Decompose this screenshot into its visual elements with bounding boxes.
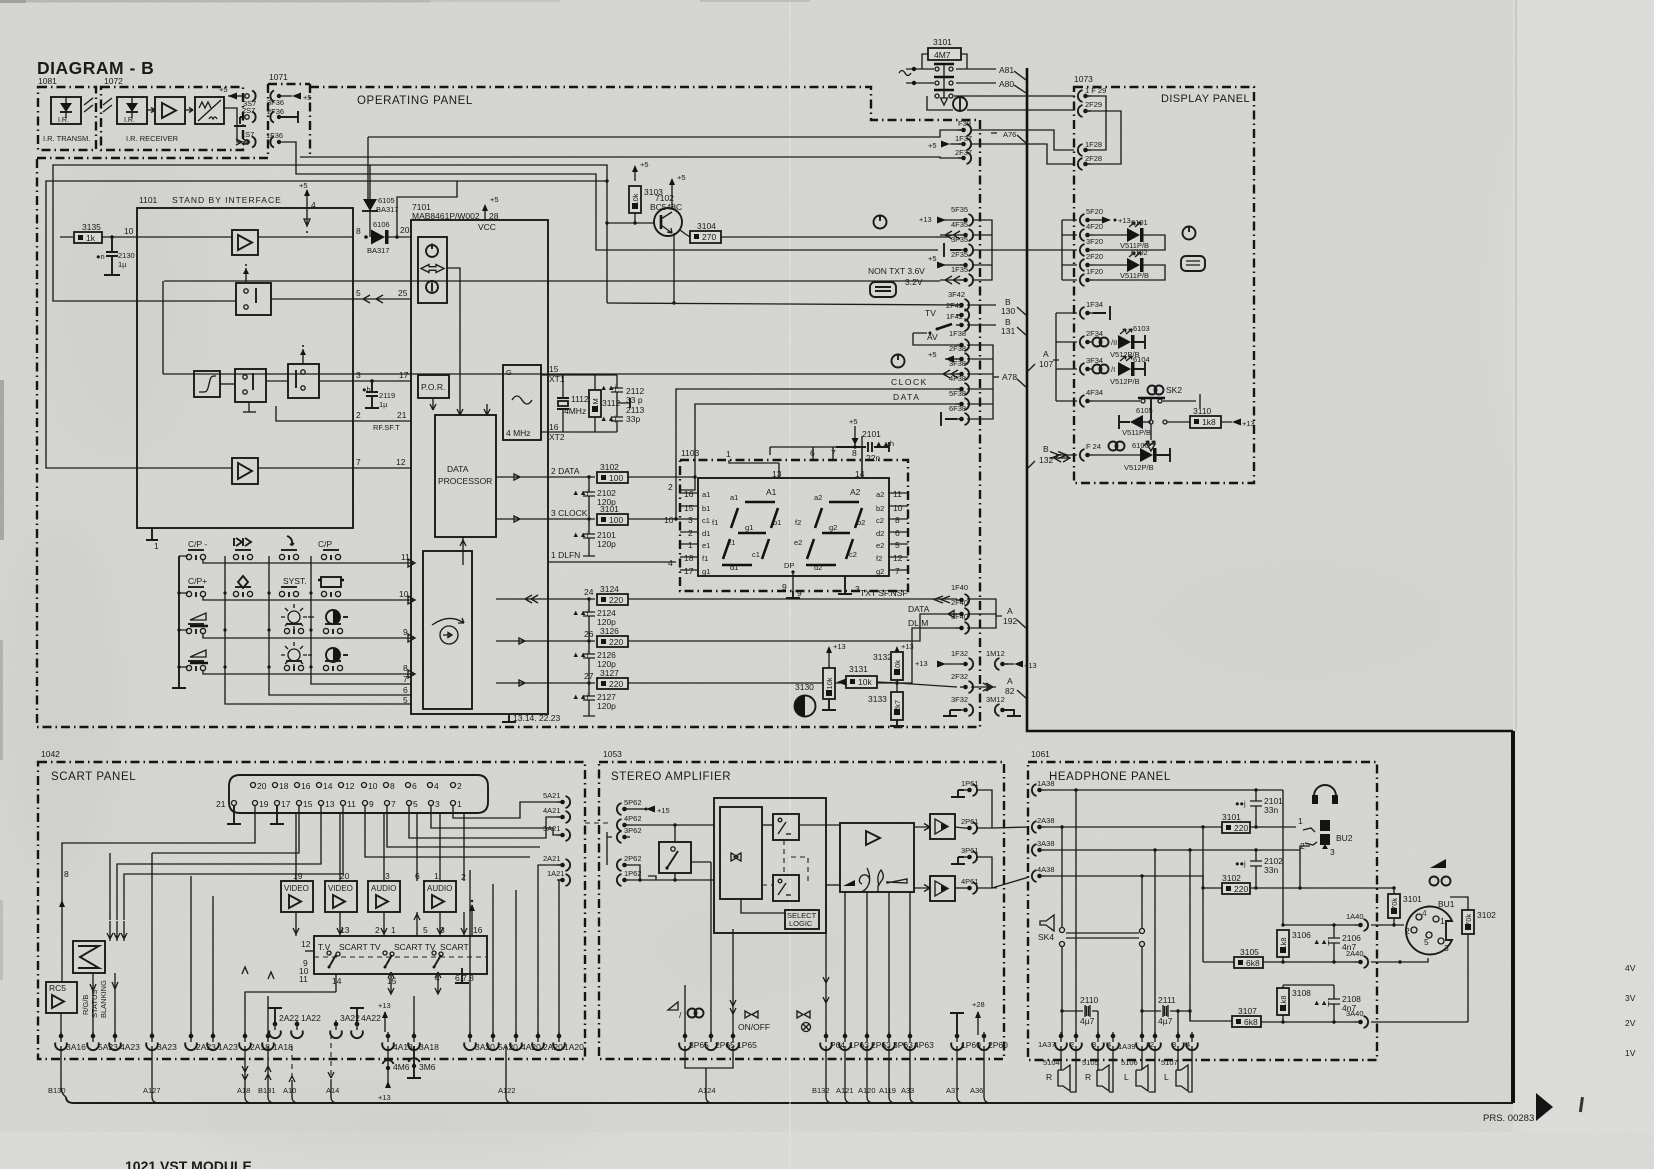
- BU1 resistor 3101 470k: [1388, 894, 1400, 918]
- F40 bracket to A192: [967, 599, 1002, 628]
- svg-text:DATA: DATA: [908, 604, 930, 614]
- svg-text:1101: 1101: [139, 195, 158, 205]
- fuse interlock bars: [934, 64, 954, 90]
- RC5 box: [46, 982, 77, 1013]
- svg-text:4µ7: 4µ7: [1080, 1016, 1095, 1026]
- svg-text:107: 107: [1039, 359, 1053, 369]
- svg-text:4F34: 4F34: [1086, 388, 1103, 397]
- svg-text:3102: 3102: [1477, 910, 1496, 920]
- svg-text:VIDEO: VIDEO: [328, 884, 353, 893]
- sub switch bottom: [773, 875, 799, 901]
- scart panel 1042 outline: [38, 762, 585, 1059]
- svg-text:9: 9: [369, 799, 374, 809]
- svg-text:5104: 5104: [1043, 1058, 1060, 1067]
- svg-text:+5: +5: [640, 160, 649, 169]
- key cassette: [321, 577, 341, 587]
- svg-text:DP: DP: [784, 561, 794, 570]
- svg-text:AV: AV: [927, 332, 938, 342]
- svg-text:▲▲j: ▲▲j: [572, 608, 589, 617]
- svg-text:▲▲j: ▲▲j: [600, 383, 617, 392]
- svg-text:1P62: 1P62: [624, 869, 642, 878]
- row2 wire to pin10: [203, 596, 415, 604]
- svg-text:5F35: 5F35: [951, 205, 968, 214]
- svg-text:L: L: [1164, 1072, 1169, 1082]
- svg-text:10: 10: [368, 781, 378, 791]
- svg-text:f1: f1: [712, 518, 718, 527]
- svg-text:1: 1: [391, 925, 396, 935]
- svg-text:A: A: [1007, 676, 1013, 686]
- balance icon: [887, 879, 907, 883]
- resistor 3112 1M vertical: [594, 375, 596, 432]
- seg b2: [855, 508, 862, 528]
- svg-text:4P62: 4P62: [624, 814, 642, 823]
- svg-text:6: 6: [810, 448, 815, 458]
- svg-text:4: 4: [1422, 908, 1427, 918]
- drops from pins to lower area: [365, 806, 530, 857]
- svg-text:G: G: [506, 368, 512, 377]
- connector 2P60: [978, 1032, 990, 1050]
- svg-text:3130: 3130: [795, 682, 814, 692]
- svg-text:4A21: 4A21: [543, 806, 561, 815]
- switch block mid: [236, 283, 271, 315]
- svg-text:F 24: F 24: [1086, 442, 1101, 451]
- IR amp box: [155, 97, 185, 124]
- svg-text:5: 5: [403, 695, 408, 705]
- svg-text:3F34: 3F34: [1086, 356, 1103, 365]
- input selector outer box: [714, 798, 826, 933]
- svg-text:1061: 1061: [1031, 749, 1050, 759]
- switch contacts: [327, 951, 331, 955]
- resistor 3106 1k8 vertical: [1277, 930, 1289, 957]
- svg-text:3A40: 3A40: [1346, 1009, 1364, 1018]
- svg-text:4: 4: [311, 200, 316, 210]
- svg-text:+5: +5: [303, 93, 312, 102]
- svg-text:a2: a2: [814, 493, 822, 502]
- mute switch box: [659, 842, 691, 873]
- svg-text:3A16: 3A16: [66, 1042, 86, 1052]
- row 1022 3A40: [1261, 1021, 1356, 1023]
- svg-text:B131: B131: [258, 1086, 276, 1095]
- svg-text:16: 16: [473, 925, 483, 935]
- svg-text:22n: 22n: [866, 453, 880, 463]
- amp VIDEO 2: [325, 881, 357, 912]
- svg-text:9: 9: [403, 627, 408, 637]
- row 888: [1203, 887, 1394, 889]
- svg-text:15: 15: [684, 503, 694, 513]
- svg-text:/I: /I: [1111, 365, 1115, 374]
- cassette icons: [731, 853, 741, 861]
- svg-text:220: 220: [609, 637, 623, 647]
- svg-text:+5: +5: [490, 195, 499, 204]
- svg-text:13: 13: [340, 925, 350, 935]
- svg-text:V511P/B: V511P/B: [1120, 271, 1149, 280]
- svg-text:3 CLOCK: 3 CLOCK: [551, 508, 588, 518]
- svg-text:82: 82: [1005, 686, 1015, 696]
- svg-text:TXT SF.NSF: TXT SF.NSF: [860, 588, 908, 598]
- P63 drops from volume block: [845, 892, 910, 1035]
- svg-text:8: 8: [390, 781, 395, 791]
- svg-text:2130: 2130: [118, 251, 135, 260]
- svg-text:A14: A14: [326, 1086, 339, 1095]
- seg f1: [731, 508, 738, 528]
- svg-text:1 DLFN: 1 DLFN: [551, 550, 580, 560]
- svg-text:2F20: 2F20: [1086, 252, 1103, 261]
- seg e2: [807, 539, 814, 559]
- wire 2F37 row: [300, 157, 961, 158]
- svg-text:BC548C: BC548C: [650, 202, 682, 212]
- svg-text:STATUS: STATUS: [90, 990, 99, 1018]
- IC ground 13.14.22.23: [502, 714, 516, 722]
- svg-text:1M12: 1M12: [986, 649, 1005, 658]
- keyboard ground column: [172, 556, 186, 688]
- svg-text:A81: A81: [999, 65, 1014, 75]
- arrow to amp: [147, 108, 155, 113]
- row 962 2A40: [1203, 961, 1356, 963]
- svg-text:1A39: 1A39: [1118, 1042, 1136, 1051]
- F35 group: +13 arrow: [944, 219, 961, 221]
- icons near P64: [797, 1011, 810, 1018]
- scart pins bottom row: [232, 801, 456, 806]
- keyboard interface block: [423, 551, 472, 709]
- vol ramp icon: [843, 880, 855, 886]
- F35 bracket: [972, 220, 992, 280]
- down arrow hollow: [1150, 424, 1152, 440]
- svg-text:●●j: ●●j: [1235, 799, 1246, 808]
- switch block A: [235, 369, 266, 402]
- connector 2P63: [861, 1032, 873, 1050]
- svg-text:3132: 3132: [873, 652, 892, 662]
- bottom bus wire: [66, 1097, 1513, 1103]
- svg-text:C/P -: C/P -: [188, 539, 207, 549]
- svg-text:V511P/B: V511P/B: [1122, 428, 1151, 437]
- svg-text:8: 8: [356, 226, 361, 236]
- IR transmit rays: [84, 98, 93, 112]
- svg-text:1F40: 1F40: [951, 583, 968, 592]
- wires shaper to connectors: [224, 108, 244, 142]
- svg-text:1: 1: [688, 540, 693, 550]
- svg-text:1071: 1071: [269, 72, 288, 82]
- svg-text:100: 100: [609, 515, 623, 525]
- svg-text:3A23: 3A23: [157, 1042, 177, 1052]
- svg-text:g2: g2: [876, 567, 884, 576]
- svg-text:BA317: BA317: [367, 246, 390, 255]
- svg-text:13.14. 22.23: 13.14. 22.23: [513, 713, 561, 723]
- IR receiver diode box: [117, 97, 147, 124]
- key next track: [234, 538, 251, 546]
- svg-text:1A18: 1A18: [273, 1042, 293, 1052]
- svg-text:1081: 1081: [38, 76, 57, 86]
- pin2/21 RF.SF.T: [276, 406, 353, 421]
- svg-text:16: 16: [684, 489, 694, 499]
- seg c2: [846, 539, 853, 559]
- svg-text:3F38: 3F38: [949, 359, 966, 368]
- svg-text:3102: 3102: [600, 462, 619, 472]
- below-panel drops stereo: [685, 1046, 733, 1103]
- svg-text:1µ: 1µ: [379, 400, 388, 409]
- seg f2: [815, 508, 822, 528]
- svg-text:2F40: 2F40: [951, 598, 968, 607]
- svg-text:6k8: 6k8: [1244, 1017, 1258, 1027]
- svg-text:3101: 3101: [600, 504, 619, 514]
- diode 6105 BA317 vertical: [369, 165, 371, 199]
- svg-text:3124: 3124: [600, 584, 619, 594]
- svg-text:CLOCK: CLOCK: [891, 377, 928, 387]
- G 4MHz oscillator box: [503, 365, 541, 440]
- svg-text:6: 6: [403, 685, 408, 695]
- svg-text:2F28: 2F28: [1085, 154, 1102, 163]
- svg-text:A124: A124: [698, 1086, 716, 1095]
- svg-text:R/G/B: R/G/B: [81, 995, 90, 1015]
- svg-text:2F42: 2F42: [946, 301, 963, 310]
- SK2 switch: [1148, 386, 1164, 395]
- svg-text:+13: +13: [901, 642, 914, 651]
- 4M6 3M6 connectors: [387, 1046, 389, 1085]
- pin 27 wire: [496, 680, 595, 686]
- svg-text:DATA: DATA: [893, 392, 920, 402]
- svg-text:470k: 470k: [1390, 898, 1399, 915]
- svg-text:3M6: 3M6: [419, 1062, 436, 1072]
- svg-text:19: 19: [259, 799, 269, 809]
- svg-text:1µ: 1µ: [118, 260, 127, 269]
- seg d1: [722, 564, 752, 567]
- svg-text:3107: 3107: [1238, 1006, 1257, 1016]
- svg-text:33p: 33p: [626, 414, 640, 424]
- F20 join bracket: [1056, 220, 1077, 280]
- wire pin20 node up to IC row: [397, 181, 457, 237]
- svg-text:11: 11: [299, 974, 308, 984]
- pin 26 wire: [496, 638, 595, 644]
- svg-text:+5: +5: [849, 417, 858, 426]
- svg-text:SCART: SCART: [440, 942, 469, 952]
- svg-text:4A38: 4A38: [1037, 865, 1055, 874]
- svg-text:131: 131: [1001, 326, 1015, 336]
- svg-text:12: 12: [893, 553, 903, 563]
- SK4 speaker + switch: [1040, 915, 1054, 931]
- seg a2: [829, 501, 859, 504]
- dashed link: [783, 840, 785, 875]
- svg-text:21: 21: [397, 410, 407, 420]
- svg-text:SYST.: SYST.: [283, 576, 307, 586]
- operating panel outline: [37, 157, 268, 159]
- svg-text:17: 17: [399, 370, 409, 380]
- svg-text:3: 3: [385, 871, 390, 881]
- svg-text:A122: A122: [498, 1086, 516, 1095]
- display panel 1073 outline: [1074, 87, 1254, 483]
- svg-text:270: 270: [702, 232, 716, 242]
- svg-text:2: 2: [375, 925, 380, 935]
- svg-text:e2: e2: [876, 541, 884, 550]
- cass icon on 1P65: [745, 1011, 758, 1018]
- inner box: [720, 807, 762, 899]
- svg-text:A120: A120: [858, 1086, 876, 1095]
- svg-text:BLANKING: BLANKING: [99, 980, 108, 1018]
- key contrast+: [326, 648, 348, 662]
- key vol-: [190, 613, 206, 620]
- svg-text:7: 7: [403, 674, 408, 684]
- svg-text:1A20: 1A20: [564, 1042, 584, 1052]
- svg-text:RC5: RC5: [49, 983, 66, 993]
- svg-text:3P62: 3P62: [624, 826, 642, 835]
- connector 4P63: [904, 1032, 916, 1050]
- svg-text:c2: c2: [849, 550, 857, 559]
- half-dark circle symbol: [795, 696, 816, 717]
- svg-text:+5: +5: [928, 141, 937, 150]
- svg-text:A36: A36: [970, 1086, 983, 1095]
- +5 VCC pin 28: [482, 204, 488, 220]
- svg-text:5107: 5107: [1161, 1058, 1178, 1067]
- svg-text:SK2: SK2: [1166, 385, 1182, 395]
- svg-text:4P63: 4P63: [914, 1040, 934, 1050]
- svg-text:3101: 3101: [933, 37, 952, 47]
- 1103 inner box: [698, 478, 889, 576]
- crystal 1112 4MHz: [562, 375, 564, 432]
- P.O.R. box: [418, 375, 449, 398]
- svg-text:OPERATING PANEL: OPERATING PANEL: [357, 95, 473, 107]
- volume tone block: [840, 823, 914, 892]
- seg d2: [806, 564, 836, 567]
- rail 2: [152, 806, 299, 853]
- svg-text:4MHz: 4MHz: [564, 406, 586, 416]
- svg-text:18: 18: [684, 553, 694, 563]
- svg-text:12: 12: [301, 939, 311, 949]
- svg-text:3126: 3126: [600, 626, 619, 636]
- seg c1: [762, 539, 769, 559]
- svg-text:BA317: BA317: [376, 205, 399, 214]
- svg-text:e2: e2: [794, 538, 802, 547]
- svg-text:6106: 6106: [373, 220, 390, 229]
- cap 2101 33n: [1250, 790, 1262, 827]
- connector P64: [820, 1032, 832, 1050]
- svg-text:+28: +28: [972, 1000, 985, 1009]
- svg-text:7: 7: [356, 457, 361, 467]
- svg-text:1: 1: [726, 449, 731, 459]
- svg-text:10k: 10k: [825, 677, 834, 689]
- cap 2126 120p: [583, 641, 595, 676]
- svg-text:25: 25: [398, 288, 408, 298]
- svg-text:2110: 2110: [1080, 995, 1099, 1005]
- amp triangle bottom: [232, 458, 258, 484]
- svg-text:3135: 3135: [82, 222, 101, 232]
- svg-text:10: 10: [893, 503, 903, 513]
- svg-text:1M: 1M: [591, 398, 600, 408]
- svg-text:3F32: 3F32: [951, 695, 968, 704]
- svg-text:6104: 6104: [1133, 355, 1150, 364]
- svg-text:1: 1: [154, 541, 159, 551]
- svg-text:1: 1: [457, 799, 462, 809]
- svg-text:33n: 33n: [1264, 865, 1278, 875]
- svg-text:2P60: 2P60: [988, 1040, 1008, 1050]
- svg-text:2119: 2119: [379, 391, 395, 400]
- svg-text:VCC: VCC: [478, 222, 496, 232]
- switch block B: [288, 364, 319, 398]
- svg-text:11: 11: [401, 552, 410, 562]
- svg-text:4A18: 4A18: [393, 1042, 413, 1052]
- svg-text:4F38: 4F38: [949, 374, 966, 383]
- svg-text:12: 12: [396, 457, 406, 467]
- svg-text:b2: b2: [857, 518, 865, 527]
- svg-text:3: 3: [1444, 943, 1449, 953]
- svg-text:20: 20: [400, 225, 410, 235]
- svg-text:1F20: 1F20: [1086, 267, 1103, 276]
- power icon left of 4F35: [874, 215, 887, 229]
- svg-text:1 F 29: 1 F 29: [1085, 86, 1106, 95]
- svg-text:/II: /II: [1111, 338, 1117, 347]
- AV box: [913, 333, 957, 345]
- amp triangle in 1101: [232, 230, 258, 255]
- svg-text:1F36: 1F36: [266, 131, 283, 140]
- transistor 7102: [654, 208, 682, 236]
- svg-text:11: 11: [347, 799, 356, 809]
- svg-text:6k8: 6k8: [1246, 958, 1260, 968]
- row1 wire to pin11: [203, 559, 415, 567]
- svg-text:+5: +5: [677, 173, 686, 182]
- svg-text:XT2: XT2: [549, 432, 565, 442]
- svg-text:A119: A119: [879, 1086, 896, 1095]
- svg-text:▲▲j: ▲▲j: [600, 414, 617, 423]
- svg-text:8: 8: [403, 663, 408, 673]
- svg-text:3102: 3102: [1222, 873, 1241, 883]
- sub switch top: [773, 814, 799, 840]
- svg-text:A33: A33: [901, 1086, 914, 1095]
- svg-text:5: 5: [1424, 937, 1429, 947]
- svg-text:DLIM: DLIM: [908, 618, 928, 628]
- svg-text:DISPLAY PANEL: DISPLAY PANEL: [1161, 93, 1250, 105]
- svg-text:18: 18: [279, 781, 289, 791]
- svg-text:13: 13: [772, 469, 782, 479]
- svg-text:+5: +5: [219, 85, 228, 94]
- svg-text:a1: a1: [702, 490, 710, 499]
- svg-text:3F36: 3F36: [267, 98, 284, 107]
- resistor 3103 10k vertical: [632, 165, 638, 181]
- svg-text:PROCESSOR: PROCESSOR: [438, 476, 492, 486]
- stand by interface 1101 box: [137, 208, 353, 528]
- svg-text:5P62: 5P62: [624, 798, 642, 807]
- svg-text:11: 11: [893, 489, 902, 499]
- +5 into 1F37: [950, 143, 961, 145]
- svg-text:10: 10: [664, 515, 674, 525]
- svg-text:1A21: 1A21: [547, 869, 565, 878]
- wires F39/F37 to display panel: [971, 130, 1074, 150]
- svg-text:A2: A2: [850, 487, 861, 497]
- svg-text:1: 1: [1298, 816, 1303, 826]
- svg-text:3131: 3131: [849, 664, 868, 674]
- bottom connectors row: [55, 1032, 67, 1050]
- svg-text:d2: d2: [814, 563, 822, 572]
- arrows into data processor: [430, 398, 436, 410]
- svg-text:6: 6: [412, 781, 417, 791]
- svg-text:DIAGRAM - B: DIAGRAM - B: [37, 58, 154, 78]
- svg-text:14: 14: [323, 781, 333, 791]
- svg-text:3110: 3110: [1193, 406, 1212, 416]
- svg-text:7: 7: [895, 566, 900, 576]
- svg-text:1A38: 1A38: [1037, 779, 1055, 788]
- svg-text:A18: A18: [237, 1086, 250, 1095]
- svg-text:19: 19: [293, 871, 303, 881]
- svg-text:2A22: 2A22: [279, 1013, 299, 1023]
- svg-text:2F34: 2F34: [1086, 329, 1103, 338]
- svg-text:a1: a1: [730, 493, 738, 502]
- connector 1F32: [944, 663, 961, 665]
- key diamond: [238, 576, 248, 588]
- svg-text:10k: 10k: [631, 193, 640, 205]
- wire from op panel top to micro supply: [367, 137, 369, 199]
- svg-text:6103: 6103: [1133, 324, 1150, 333]
- svg-text:132: 132: [1039, 455, 1053, 465]
- svg-text:4A22: 4A22: [361, 1013, 381, 1023]
- shaper box: [195, 97, 224, 124]
- svg-text:2 DATA: 2 DATA: [551, 466, 580, 476]
- svg-text:3F42: 3F42: [948, 290, 965, 299]
